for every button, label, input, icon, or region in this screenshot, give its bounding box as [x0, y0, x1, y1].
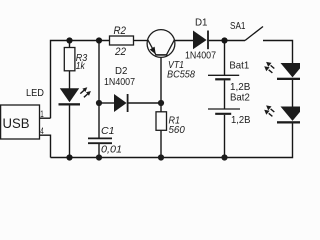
diode D1: [185, 17, 216, 62]
resistor R1: [156, 112, 185, 136]
svg-text:1: 1: [40, 109, 44, 119]
wire between right LEDs: [292, 80, 294, 107]
svg-text:1N4007: 1N4007: [185, 50, 216, 62]
battery Bat1: [208, 60, 250, 93]
node dot D2 anode: [96, 100, 102, 106]
wire right rail bottom: [51, 124, 293, 158]
svg-text:Bat2: Bat2: [230, 92, 250, 104]
wire transistor base down: [160, 57, 162, 111]
node dot bottom C1: [96, 154, 102, 160]
LED right 2: [264, 105, 307, 123]
wire R3 to LED: [69, 71, 71, 89]
USB connector X1: [1, 105, 40, 139]
wire transistor to D1: [175, 40, 194, 42]
node dot top rail 2: [96, 37, 102, 43]
base bar: [155, 54, 167, 56]
svg-text:C1: C1: [101, 125, 115, 137]
node dot top rail 1: [66, 37, 72, 43]
svg-text:D2: D2: [115, 65, 128, 77]
wire D2 cathode to node: [128, 102, 161, 104]
wire C1 column: [98, 41, 100, 139]
node dot bottom R1: [158, 154, 164, 160]
LED VD1 (left indicator LED): [59, 87, 91, 105]
svg-text:1N4007: 1N4007: [104, 76, 135, 88]
led arrow 1: [80, 90, 84, 93]
led2 arrow 2: [269, 113, 273, 116]
svg-text:1,2B: 1,2B: [231, 114, 251, 126]
wire C1 bottom: [98, 143, 100, 157]
capacitor C1: [88, 125, 122, 156]
wire R3 column top: [69, 41, 71, 48]
led1 arrow 2: [269, 70, 273, 73]
wire top rail left: [51, 41, 110, 119]
wire D2 anode: [99, 102, 114, 104]
transistor VT1: [147, 30, 175, 58]
wire USB pin4: [40, 135, 51, 157]
emitter arrow: [150, 47, 156, 55]
svg-text:1k: 1k: [76, 60, 86, 72]
svg-text:LED: LED: [26, 87, 44, 99]
wire D1 to switch: [209, 40, 245, 42]
diode D2: [104, 65, 135, 112]
collector diagonal: [166, 40, 174, 55]
node dot D1-switch: [221, 37, 227, 43]
svg-text:BC558: BC558: [167, 69, 195, 81]
svg-text:Bat1: Bat1: [229, 60, 249, 72]
wire USB pin1 stub: [40, 117, 51, 119]
led1 arrow 1: [271, 65, 275, 68]
wire R1 bottom: [160, 130, 162, 157]
svg-text:SA1: SA1: [230, 20, 246, 32]
svg-text:D1: D1: [195, 17, 208, 29]
resistor R2: [110, 25, 134, 58]
svg-text:0,01: 0,01: [101, 144, 122, 156]
switch SA1: [230, 20, 263, 41]
resistor R3: [64, 48, 87, 73]
LED right 1: [264, 62, 307, 80]
wire battery column top: [224, 41, 226, 76]
svg-text:4: 4: [40, 126, 44, 136]
emitter diagonal: [148, 40, 156, 55]
wire LED to bottom rail: [69, 105, 71, 157]
battery Bat2: [208, 92, 251, 126]
wire Bat1 to Bat2: [224, 80, 226, 109]
node dot bottom LED column: [66, 154, 72, 160]
svg-text:R2: R2: [114, 25, 127, 37]
svg-text:560: 560: [169, 124, 185, 136]
wire switch right to LED rail: [263, 41, 293, 64]
wire R2 to transistor: [134, 40, 148, 42]
svg-text:22: 22: [114, 46, 126, 58]
node dot D2 cathode: [158, 100, 164, 106]
led2 arrow 1: [271, 109, 275, 112]
svg-text:USB: USB: [3, 115, 30, 131]
wire Bat2 to bottom rail: [224, 115, 226, 158]
led arrow 2: [84, 94, 88, 97]
node dot bottom battery: [221, 154, 227, 160]
